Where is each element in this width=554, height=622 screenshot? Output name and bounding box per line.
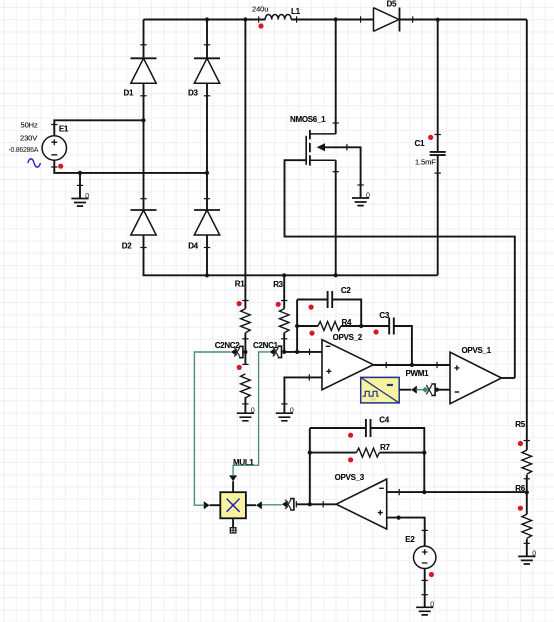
- op-amp OPVS_3: [336, 479, 387, 529]
- diode D3: [194, 57, 220, 59]
- node junction OPVS_1 minus: [435, 388, 439, 392]
- node junction R1 tap: [243, 17, 247, 21]
- MUL1 right input arrow: [246, 504, 256, 506]
- diode D2: [131, 209, 157, 211]
- probe dot: [58, 164, 63, 169]
- probe dot: [309, 331, 314, 336]
- wire bridge left column (D1/D2): [143, 20, 145, 59]
- resistor R3 top wire: [283, 275, 285, 308]
- wire inductor to diode D5: [291, 19, 373, 21]
- node junction feedback to output: [308, 502, 312, 506]
- probe dot: [237, 301, 242, 306]
- resistor R1: [241, 309, 251, 333]
- wire D5 to output bus: [400, 19, 527, 21]
- wire D2 anode to bottom bus: [144, 235, 438, 275]
- probe dot: [428, 135, 433, 140]
- feedback network OPVS_3 left riser: [309, 428, 311, 504]
- wire top bus from bridge to inductor: [144, 19, 266, 21]
- svg-text:0: 0: [251, 408, 255, 415]
- svg-text:240u: 240u: [252, 5, 268, 14]
- svg-text:D1: D1: [124, 89, 134, 98]
- MUL1 top input arrow: [232, 481, 234, 492]
- diode D4: [194, 209, 220, 211]
- svg-text:R7: R7: [380, 443, 390, 452]
- ground R6 (node 0): [518, 556, 535, 564]
- svg-text:C3: C3: [379, 311, 389, 320]
- probe dot: [518, 506, 523, 511]
- probe dot: [374, 329, 379, 334]
- svg-text:C4: C4: [379, 415, 389, 424]
- resistor R2: [242, 363, 248, 365]
- wire to E1 ground: [79, 173, 81, 198]
- svg-text:0: 0: [85, 193, 89, 200]
- wire D1 anode to E1 node to D2 cathode: [143, 83, 145, 210]
- wire divider to OPVS_3 inverting input: [387, 491, 527, 493]
- svg-text:E2: E2: [405, 535, 415, 544]
- svg-text:D5: D5: [387, 0, 397, 9]
- ground MOSFET body (node 0): [352, 198, 369, 206]
- svg-text:0: 0: [430, 602, 434, 609]
- wire feedback riser: [296, 300, 298, 352]
- node junction C3 to output: [410, 363, 414, 367]
- op-amp OPVS_1: [450, 352, 502, 404]
- svg-text:D3: D3: [188, 89, 198, 98]
- node junction C2NC2: [243, 350, 247, 354]
- probe dot: [309, 305, 314, 310]
- svg-text:0: 0: [532, 551, 536, 558]
- wire OPVS_3 output: [296, 503, 336, 505]
- capacitor C4: [310, 427, 366, 429]
- resistor R3: [279, 309, 289, 333]
- capacitor C1 1.5mF: [437, 20, 439, 152]
- node junction C1 top: [436, 18, 440, 22]
- transistor NMOS6_1: [310, 133, 336, 135]
- sensor C2NC1: [270, 348, 275, 355]
- node junction C2NC1: [282, 350, 286, 354]
- wire E2 to ground: [424, 569, 426, 608]
- node junction source on bottom bus: [334, 273, 338, 277]
- svg-text:OPVS_3: OPVS_3: [335, 473, 365, 482]
- wire body to ground: [325, 147, 361, 198]
- op-amp OPVS_2: [322, 340, 373, 390]
- svg-text:ba: ba: [371, 396, 377, 401]
- svg-text:D2: D2: [122, 242, 132, 251]
- wire R1 to sensor C2NC2: [244, 333, 246, 365]
- sensor OPVS_3 output to MUL1: [282, 501, 287, 508]
- wire green C2NC2 to MUL1 left input: [194, 352, 231, 505]
- svg-text:R5: R5: [515, 420, 525, 429]
- svg-text:50Hz: 50Hz: [21, 121, 38, 130]
- node junction R4/C2 right: [359, 324, 363, 328]
- wire bridge right column (D3/D4): [206, 20, 208, 59]
- node junction D3 top: [205, 17, 209, 21]
- transistor NMOS6_1 drain wire: [335, 20, 337, 134]
- wire E1 minus to bridge neutral: [54, 160, 207, 173]
- ground E1 (node 0): [71, 199, 88, 207]
- wire D4 anode to bottom bus: [206, 235, 208, 275]
- node junction D4 bottom: [205, 273, 209, 277]
- wire to OPVS_1 minus: [437, 389, 450, 391]
- svg-text:-0.86286A: -0.86286A: [9, 147, 39, 154]
- svg-text:OPVS_1: OPVS_1: [462, 346, 492, 355]
- wire E1 plus to bridge: [54, 120, 143, 136]
- wire right output bus down to R5: [526, 20, 528, 451]
- MUL1 output terminal glyph: [232, 518, 234, 527]
- node junction R7 right: [422, 451, 426, 455]
- node junction E1 ground tap: [78, 171, 82, 175]
- wire OPVS_2 inverting input: [284, 351, 322, 353]
- node junction feedback tap: [295, 350, 299, 354]
- ground R2 (node 0): [237, 413, 254, 421]
- node junction R3 on bottom bus: [282, 273, 286, 277]
- MUL1 left input arrow: [210, 504, 221, 506]
- transistor body arrow: [317, 143, 325, 151]
- inductor L1 240u: [265, 15, 291, 20]
- svg-text:L1: L1: [291, 7, 301, 16]
- svg-text:PWM1: PWM1: [406, 369, 430, 378]
- wire source to bottom bus: [310, 159, 336, 161]
- node junction R4 left: [295, 324, 299, 328]
- ground OPVS_2 plus (node 0): [276, 413, 293, 421]
- svg-text:C2: C2: [341, 286, 351, 295]
- wire PWM1 output: [399, 389, 411, 391]
- AC source E1: [42, 136, 66, 160]
- wire R6 to ground: [526, 539, 528, 556]
- node junction MOSFET drain: [334, 17, 338, 21]
- wire OPVS_2 output to OPVS_1 plus: [373, 364, 450, 366]
- node junction E1 top feed: [141, 118, 145, 122]
- probe dot: [276, 302, 281, 307]
- wire R3 to sensor C2NC1: [283, 333, 285, 352]
- capacitor C2: [297, 299, 328, 301]
- probe dot: [237, 365, 242, 370]
- AC sine symbol: [28, 159, 41, 167]
- svg-text:1.5mF: 1.5mF: [415, 158, 436, 167]
- resistor R7: [310, 452, 357, 454]
- ground E2 (node 0): [416, 607, 433, 615]
- wire OPVS_3 plus input to E2: [387, 518, 425, 547]
- svg-text:E1: E1: [59, 125, 69, 134]
- sensor C2NC2: [231, 349, 236, 356]
- probe dot: [348, 433, 353, 438]
- svg-text:D4: D4: [188, 242, 198, 251]
- PWM carrier block PWM1: [361, 377, 400, 403]
- svg-text:R3: R3: [273, 280, 283, 289]
- wire OPVS_2 noninverting input to ground: [284, 377, 322, 413]
- svg-text:NMOS6_1: NMOS6_1: [290, 115, 326, 124]
- wire R2 to ground: [244, 397, 246, 413]
- node junction E2 tap: [397, 516, 401, 520]
- probe dot: [348, 457, 353, 462]
- diode D1: [131, 57, 157, 59]
- voltage source E2: [414, 546, 436, 568]
- gating sensor to OPVS_1: [411, 386, 416, 393]
- probe dot: [429, 572, 434, 577]
- svg-text:C2NC1: C2NC1: [253, 341, 279, 350]
- probe dot: [258, 23, 263, 28]
- diode D5: [374, 8, 399, 32]
- node junction R5/R6 divider: [525, 490, 529, 494]
- node junction C4/R7 right leg: [422, 490, 426, 494]
- wire R5 to divider node: [526, 475, 528, 515]
- wire OPVS_1 output: [502, 377, 515, 379]
- svg-text:R1: R1: [235, 280, 245, 289]
- svg-text:OPVS_2: OPVS_2: [333, 333, 363, 342]
- svg-text:C2NC2: C2NC2: [215, 341, 241, 350]
- svg-text:0: 0: [290, 408, 294, 415]
- multiplier MUL1: [220, 492, 246, 518]
- svg-text:230V: 230V: [20, 134, 37, 143]
- resistor R4: [297, 325, 318, 327]
- svg-text:C1: C1: [415, 139, 425, 148]
- resistor R1 top wire: [244, 20, 246, 309]
- node junction E1 bottom feed: [205, 171, 209, 175]
- capacitor C3: [361, 325, 389, 327]
- wire gate net: gate to OPVS_1 output: [285, 160, 515, 378]
- wire green C2NC1 to MUL1 top input: [233, 352, 269, 476]
- svg-text:0: 0: [366, 192, 370, 199]
- probe dot: [518, 441, 523, 446]
- node junction R7 left: [308, 451, 312, 455]
- wire green OPVS_3 to MUL1 right input: [261, 504, 282, 506]
- svg-text:R4: R4: [342, 318, 352, 327]
- wire D3 anode to E1 neutral to D4 cathode: [206, 83, 208, 210]
